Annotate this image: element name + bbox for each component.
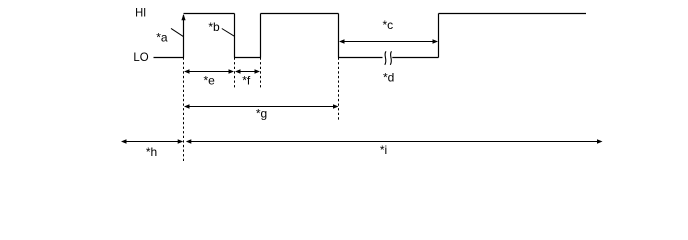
svg-text:*i: *i: [380, 143, 387, 157]
extension dashed line at second falling edge: [338, 58, 340, 121]
wire HI pulse 2 top: [261, 13, 339, 15]
break mark left squiggle: [385, 51, 386, 65]
rising edge 2: [260, 14, 262, 58]
wire LO segment left of break: [339, 57, 383, 59]
falling edge 1: [234, 14, 236, 58]
svg-text:*d: *d: [383, 71, 394, 85]
wire LO segment right of break: [392, 57, 438, 59]
svg-text:*a: *a: [156, 31, 168, 45]
dimension arrow *g: [184, 104, 339, 108]
dimension arrow *e: [184, 69, 234, 73]
svg-text:*f: *f: [242, 73, 251, 87]
rising edge 1 with up arrow: [181, 14, 185, 58]
svg-text:HI: HI: [135, 5, 146, 19]
wire HI pulse 1 top: [184, 13, 235, 15]
leader line for *a: [171, 28, 183, 36]
falling edge 2: [338, 14, 340, 58]
extension dashed line at second rising edge: [260, 58, 262, 89]
break mark right squiggle: [390, 51, 391, 65]
leader line for *b: [222, 29, 235, 37]
svg-text:*c: *c: [382, 18, 393, 32]
svg-text:*h: *h: [146, 145, 157, 159]
svg-text:*b: *b: [208, 20, 220, 34]
dimension arrow *i: [186, 139, 603, 143]
dimension arrow *f: [235, 69, 260, 73]
svg-text:*g: *g: [256, 107, 267, 121]
svg-text:LO: LO: [133, 50, 148, 64]
rising edge 3: [438, 14, 440, 58]
extension dashed line at first rising edge: [183, 58, 185, 164]
dimension arrow *c: [339, 39, 438, 43]
wire final HI segment: [439, 13, 587, 15]
dimension arrow *h: [121, 139, 183, 143]
extension dashed line at first falling edge: [234, 58, 236, 89]
wire initial LO segment: [154, 57, 184, 59]
svg-text:*e: *e: [204, 73, 216, 87]
wire LO segment between pulses: [235, 57, 261, 59]
